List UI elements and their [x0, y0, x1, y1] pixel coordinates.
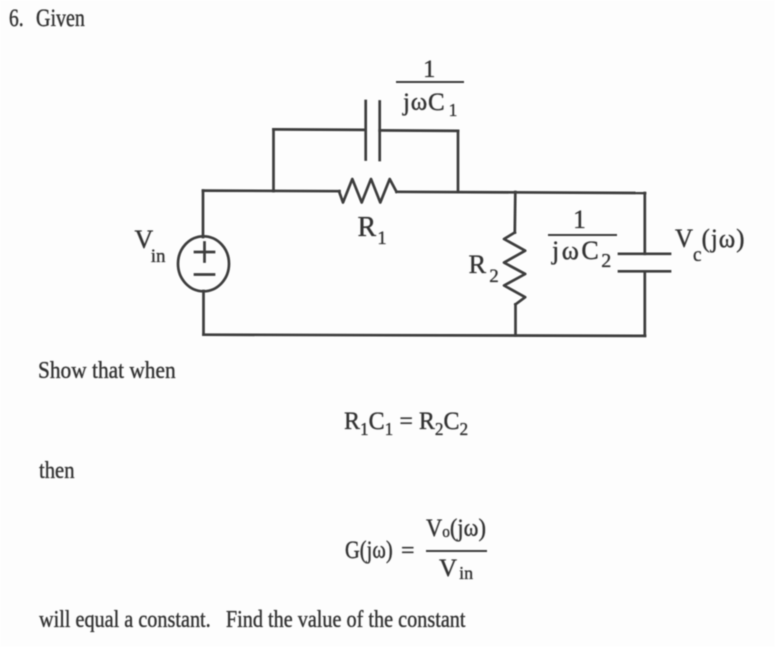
- label: impedance 1/jwC2 numerator: [573, 207, 586, 233]
- voltage source Vin circle: [178, 236, 229, 291]
- label: impedance 1/jwC1 denominator: [403, 90, 455, 115]
- equation: G(jw) = Vo(jw)/Vin : left side: [345, 538, 393, 563]
- wire: right branch vertical bottom: [643, 271, 646, 336]
- wire: Vin bottom lead: [202, 291, 205, 335]
- capacitor C2 top plate: [619, 252, 670, 255]
- wire: R2 branch top lead: [513, 192, 516, 233]
- equation denominator Vin: [439, 556, 471, 581]
- label: impedance 1/jwC1 numerator: [423, 57, 436, 82]
- wire: left branch vertical (top rail to Vin source): [202, 191, 205, 237]
- body text: conclusion line: [39, 608, 466, 632]
- label: impedance 1/jwC2 denominator: [552, 238, 611, 264]
- wire: top rail right segment (R1 to output node): [397, 192, 646, 193]
- label: source Vin: [135, 227, 169, 253]
- capacitor C2 bottom plate: [619, 270, 670, 273]
- equation numerator Vo(jw): [426, 516, 486, 541]
- body text: Show that when: [38, 359, 176, 383]
- voltage source plus sign: [195, 243, 214, 262]
- equation fraction bar: [426, 550, 487, 552]
- wire: C1 branch top-right horizontal: [380, 129, 458, 132]
- body text: then: [39, 459, 75, 483]
- capacitor C1 right plate: [378, 102, 381, 161]
- wire: right branch vertical top (to C2): [643, 193, 646, 254]
- wire: C1 branch top-left horizontal: [274, 128, 366, 131]
- wire: C1 branch left vertical riser: [272, 129, 275, 191]
- label: resistor R2 designator: [469, 251, 496, 278]
- label: impedance 1/jwC1 fraction bar: [396, 81, 465, 83]
- label: output voltage Vc(jw): [675, 226, 745, 252]
- problem number text: [9, 6, 24, 31]
- capacitor C1 left plate: [364, 101, 367, 160]
- label: impedance 1/jwC2 fraction bar: [548, 234, 618, 236]
- voltage source minus sign: [195, 273, 214, 276]
- wire: C1 branch right vertical drop: [457, 131, 460, 192]
- resistor R2: [504, 233, 525, 305]
- label: resistor R1 designator: [358, 214, 386, 242]
- equation: R1C1 = R2C2: [344, 409, 468, 434]
- wire: top rail left segment (node A to R1): [203, 189, 340, 192]
- wire: bottom rail: [204, 335, 646, 336]
- wire: R2 branch bottom lead: [514, 304, 517, 335]
- resistor R1: [339, 179, 397, 203]
